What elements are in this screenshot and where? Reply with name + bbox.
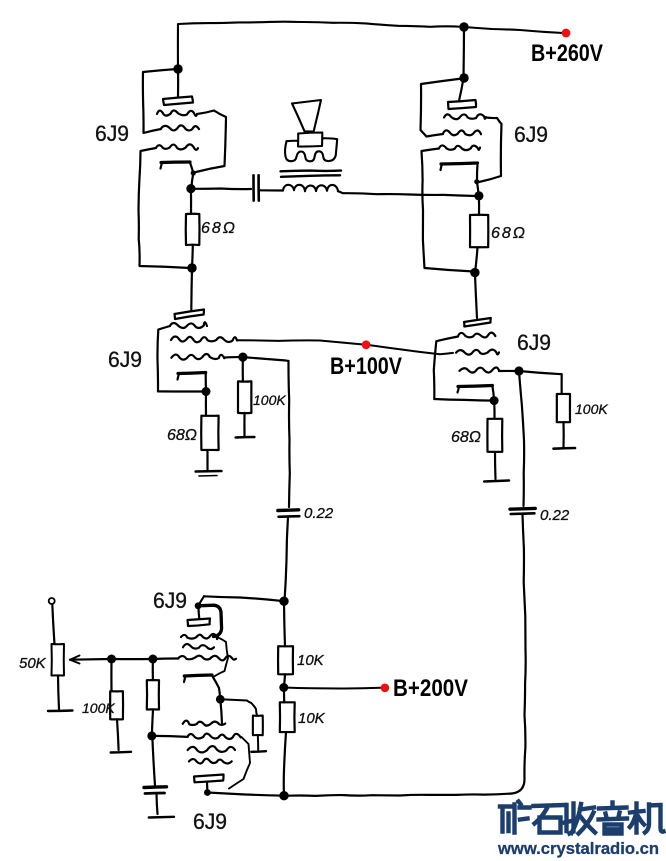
svg-text:6J9: 6J9: [153, 588, 187, 613]
wire to R1: [190, 189, 192, 214]
capacitor C3 top plate: [510, 507, 535, 511]
tube V2 cathode tick: [441, 164, 443, 170]
node output junction: [279, 791, 288, 800]
tube V5a anode plate bar: [188, 619, 211, 627]
node V5b plate: [204, 789, 211, 796]
svg-text:0.22: 0.22: [304, 505, 334, 522]
input terminal J1: [49, 598, 55, 604]
capacitor C4 top plate: [144, 785, 167, 789]
ground below R8: [111, 751, 131, 754]
wire V5a cathode lead: [212, 676, 220, 700]
svg-text:10K: 10K: [298, 710, 326, 727]
ground below R12: [251, 750, 266, 753]
wire bottom return: [288, 794, 512, 796]
ground below R3: [196, 470, 222, 473]
wire R3 to ground: [206, 450, 208, 470]
ground below C4: [149, 816, 174, 819]
svg-text:68Ω: 68Ω: [167, 427, 197, 444]
wire node to V5 grid: [153, 657, 179, 660]
node wiper/R8: [107, 655, 116, 664]
wire down to C2: [288, 361, 289, 507]
svg-text:10K: 10K: [297, 652, 325, 669]
node V3 grid3 junction: [238, 353, 247, 362]
wire C1 to T1 coil: [259, 189, 283, 191]
wire wiper to node: [112, 658, 153, 660]
wire R8 to ground: [117, 719, 119, 750]
wire node to C2 drop: [243, 357, 289, 361]
wire pot wiper: [70, 658, 112, 661]
wire node to V3 anode: [190, 268, 193, 310]
resistor R11 10K: [280, 702, 295, 732]
node V3 cathode junction: [202, 387, 211, 396]
ground below R5: [484, 481, 509, 482]
wire R2 to node: [475, 247, 478, 272]
tube V2 grid 1: [444, 114, 486, 119]
wire J1 to pot: [52, 604, 54, 644]
node V2 output junction: [474, 191, 483, 200]
node V4 cathode junction: [490, 396, 499, 405]
wire T1 to V2 cathode node: [338, 191, 476, 196]
wire R10 to node: [284, 674, 285, 687]
capacitor C1 left plate: [252, 175, 255, 200]
wire V3 grid1 loop to cathode line: [157, 326, 170, 391]
wire B+ rail to V2: [462, 27, 465, 78]
resistor R4 100K: [238, 381, 251, 413]
capacitor C1 right plate: [257, 175, 260, 200]
tube V4 cathode tick: [458, 387, 460, 393]
tube V5a grid 2: [183, 644, 214, 649]
ground below pot: [48, 709, 73, 712]
transformer T1 core line 2: [281, 175, 340, 177]
node R9/C4 junction: [147, 731, 156, 740]
transformer T1 core line 1: [281, 169, 342, 172]
svg-text:6J9: 6J9: [517, 330, 551, 355]
wire V4 cathode lead: [492, 386, 494, 401]
tube V5b grid 1: [183, 721, 226, 726]
speaker LS1 horn: [292, 100, 321, 132]
node V2 cathode: [474, 179, 479, 184]
pot wiper arrowhead: [70, 656, 80, 664]
node B+ rail junction: [459, 22, 468, 31]
resistor R5 68 ohm: [487, 419, 502, 452]
tube V5a grid 1: [181, 634, 218, 639]
svg-text:B+200V: B+200V: [393, 675, 468, 702]
transformer T1 primary coil: [283, 185, 338, 191]
wire to R6 top: [561, 374, 563, 394]
wire V2 grid2-to-plate-supply loop: [421, 79, 463, 137]
tube V1 cathode tick: [161, 163, 163, 169]
wire pot to ground: [58, 676, 59, 710]
ground below R3 line2: [199, 475, 217, 478]
wire V5b anode lead: [206, 782, 209, 793]
svg-text:100K: 100K: [575, 401, 608, 417]
capacitor C2 top plate: [278, 508, 299, 512]
svg-text:www.crystalradio.cn: www.crystalradio.cn: [497, 839, 659, 858]
resistor R9: [147, 680, 159, 709]
wire screen to B+100V: [237, 340, 366, 345]
node B+200V junction: [279, 683, 288, 692]
tube V1 cathode bar: [161, 160, 190, 164]
node V2/V4 junction: [470, 268, 479, 277]
wire V5a anode lead: [197, 606, 200, 618]
wire node to R11: [283, 688, 286, 703]
wire V5a plate-screen strap (thick): [199, 605, 222, 636]
tube V5a cathode bar: [184, 675, 212, 676]
node V5 B+ junction: [279, 597, 288, 606]
resistor R3 68 ohm: [201, 416, 218, 450]
tube V3 anode plate bar: [175, 310, 205, 320]
svg-text:6J9: 6J9: [514, 122, 548, 147]
node V4 grid3 junction: [514, 366, 523, 375]
wire R4 to ground: [243, 413, 245, 436]
wire cathode to R12: [220, 699, 257, 715]
wire V4 grid3 to node: [499, 370, 519, 372]
tube V5a cathode tick: [184, 676, 185, 682]
svg-text:B+100V: B+100V: [330, 353, 402, 380]
tube V4 grid 2 (screen): [456, 350, 499, 355]
wire to R8: [110, 659, 112, 691]
wire to R5: [493, 401, 496, 419]
tube V1 grid 2: [161, 125, 199, 130]
terminal B+100V (red): [362, 340, 371, 349]
tube V1 grid 1: [157, 110, 197, 115]
wire R11 to output node: [284, 732, 286, 796]
wire to R4: [242, 357, 244, 381]
wire V4 grid1 loop to cathode line: [434, 337, 458, 400]
wire V4 suppressor-cathode line: [434, 399, 494, 401]
node V5a cathode junction: [216, 695, 225, 704]
wire V2 anode lead: [459, 78, 464, 101]
wire B+ top rail: [178, 22, 464, 69]
wire node to R10: [284, 601, 285, 646]
svg-text:50K: 50K: [19, 655, 47, 672]
svg-text:68Ω: 68Ω: [201, 220, 237, 237]
wire V1 anode lead: [177, 69, 179, 97]
wire C3 down right side: [512, 515, 526, 794]
terminal B+260V (red): [562, 29, 571, 38]
wire node to R6: [519, 371, 562, 374]
wire C4 to ground: [157, 794, 158, 814]
wire V2 cathode lead: [477, 164, 479, 196]
tube V4 grid 3: [459, 367, 499, 372]
wire V3 grid3 to node: [224, 356, 243, 359]
wire R6 to ground: [562, 422, 564, 447]
wire V5b grid loop: [229, 737, 250, 789]
wire node to C4: [152, 736, 155, 786]
wire to R9: [152, 659, 154, 680]
tube V1 grid 3: [156, 144, 198, 149]
resistor R12: [253, 716, 263, 736]
svg-text:68Ω: 68Ω: [451, 429, 481, 446]
tube V5b control grid: [188, 734, 241, 739]
tube V5a control grid: [178, 656, 236, 661]
wire V1 grid1-to-cathode loop: [196, 111, 226, 173]
capacitor C2 bottom plate: [279, 515, 300, 518]
wire B+100V to V4 screen: [366, 345, 453, 355]
wire R1 to node: [191, 245, 194, 268]
node plate junction V2: [459, 73, 468, 82]
node V1/V3 junction: [187, 263, 196, 272]
resistor R2 68 ohm: [470, 215, 488, 248]
speaker LS1 magnet left: [287, 140, 299, 143]
wire V1 output to C1: [191, 187, 251, 190]
tube V4 grid 1: [458, 333, 495, 338]
tube V2 grid 2: [443, 130, 481, 135]
tube V2 cathode bar: [441, 163, 478, 164]
wire R12 to ground: [257, 735, 259, 750]
speaker LS1 magnet body: [285, 138, 337, 161]
node V5a plate: [195, 602, 202, 609]
svg-text:B+260V: B+260V: [531, 40, 603, 67]
tube V1 anode plate bar: [163, 97, 193, 106]
svg-text:6J9: 6J9: [108, 347, 142, 372]
capacitor C4 bottom plate: [145, 792, 165, 795]
ground below R4: [236, 436, 255, 439]
tube V4 anode plate bar: [464, 318, 491, 327]
wire V2 grid3 long loop to lower node: [422, 149, 475, 272]
node R9 top: [148, 655, 157, 664]
wire node to V5 lower grid: [152, 736, 188, 737]
resistor R8 100K: [110, 691, 123, 719]
tube V3 cathode tick: [178, 374, 180, 380]
wire R5 to ground: [494, 452, 497, 479]
wire V2 grid1-to-cathode loop: [479, 118, 502, 183]
wire V1 grid3 long loop to lower node: [139, 148, 191, 268]
wire to R2: [478, 196, 480, 215]
wire V5a plate to B+ node: [204, 596, 284, 601]
tube V3 grid 2 (screen): [171, 336, 237, 342]
wire node down to C3: [519, 371, 524, 506]
tube V5b grid 3: [189, 759, 232, 764]
resistor R1 68 ohm: [186, 214, 200, 245]
wire V3 suppressor-cathode line: [158, 390, 206, 392]
wire to B+200V terminal: [284, 688, 381, 689]
wire node to V4 anode: [475, 273, 477, 318]
node plate junction V1: [173, 64, 182, 73]
node V1 cathode: [191, 170, 196, 175]
speaker LS1 voice-coil box: [298, 133, 322, 147]
wire to B+260V terminal: [464, 27, 563, 33]
wire V3 cathode lead: [205, 373, 208, 392]
svg-text:0.22: 0.22: [540, 507, 570, 524]
svg-text:6J9: 6J9: [193, 809, 227, 834]
resistor R6 100K: [557, 394, 570, 422]
svg-text:6J9: 6J9: [95, 121, 129, 146]
potentiometer R7 50K body: [52, 644, 65, 676]
tube V3 grid 3: [171, 354, 224, 360]
tube V3 cathode bar: [178, 373, 206, 374]
svg-text:100K: 100K: [253, 392, 286, 408]
tube V5b grid 2 (bumpy): [188, 746, 235, 752]
tube V2 anode plate bar: [448, 100, 476, 109]
wire V5a grid loop to cathode: [214, 638, 228, 677]
wire V1 cathode lead: [190, 163, 193, 189]
svg-text:68Ω: 68Ω: [491, 225, 527, 242]
tube V3 grid 1: [170, 322, 207, 328]
capacitor C3 bottom plate: [511, 512, 535, 515]
node V1 output junction: [186, 184, 195, 193]
svg-text:100K: 100K: [82, 700, 115, 716]
wire V1 grid2-to-plate-supply loop: [143, 69, 177, 133]
resistor R10 10K: [278, 646, 293, 674]
ground below R6: [554, 447, 576, 450]
tube V2 grid 3: [439, 145, 480, 150]
watermark logo: crystal radio (blue CJK strokes): [500, 802, 664, 834]
wire C2 to V5 node: [285, 517, 289, 601]
wire to R3: [205, 392, 207, 416]
terminal B+200V (red): [381, 684, 390, 693]
tube V4 cathode bar: [458, 386, 492, 387]
wire R9 to node: [152, 710, 153, 736]
tube V5b anode plate bar: [194, 775, 224, 783]
wire V5a cathode to V5b: [220, 699, 222, 724]
wire corner V5a: [198, 596, 204, 606]
wire V5b plate to output node: [207, 793, 284, 796]
